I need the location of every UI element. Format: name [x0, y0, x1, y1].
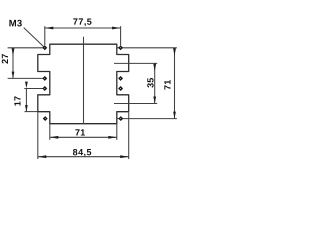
svg-text:17: 17 [12, 96, 22, 106]
arrow bottom of 35 [153, 97, 156, 104]
hole bottom-left [43, 117, 47, 121]
leader from M3 to hole [24, 28, 45, 48]
extension line row hole8 going right [117, 118, 177, 120]
svg-text:71: 71 [163, 80, 173, 90]
svg-text:84,5: 84,5 [73, 147, 92, 157]
arrow bottom of 27 [12, 72, 15, 79]
svg-text:M3: M3 [9, 18, 23, 29]
extension line right flange down [128, 112, 130, 159]
hole left middle upper [43, 76, 47, 80]
arrow top of 35 [153, 64, 156, 72]
arrow left of 71 bottom [50, 136, 59, 139]
extension line left flange down [37, 112, 39, 159]
extension line row hole1 going left [8, 47, 43, 49]
dimension 17 line [25, 88, 27, 111]
arrow top of 71 right [173, 48, 176, 56]
arrow top of 27 [12, 48, 15, 56]
extension line row hole5 going right [117, 47, 177, 49]
dimension 84,5 line [38, 156, 129, 158]
extension line slot bottom right [114, 103, 157, 105]
arrow right of 71 bottom [108, 136, 117, 139]
hole right middle lower [119, 87, 123, 91]
center line [83, 37, 85, 124]
extension line row hole2 going left [8, 77, 43, 79]
svg-text:77,5: 77,5 [73, 17, 92, 27]
hole bottom-right [119, 117, 123, 121]
dimension 77,5 line [45, 27, 121, 29]
dimension 35 line [154, 63, 156, 103]
extension line vertical to hole top-right [120, 26, 122, 45]
arrow right of 84,5 [120, 155, 129, 158]
arrow left of 77,5 [45, 27, 54, 30]
hole left middle lower [43, 87, 47, 91]
arrow left of 84,5 [38, 155, 47, 158]
dimension 71 right line [174, 48, 176, 119]
extension line row hole3 going left [24, 88, 43, 90]
extension line bottom-right notch down [116, 124, 118, 140]
arrow bottom of 17 [25, 82, 28, 89]
dimension 71 bottom line [50, 136, 117, 138]
extension line bottom-left notch down [49, 124, 51, 140]
svg-text:35: 35 [145, 77, 155, 87]
body outline [38, 44, 129, 124]
step extension line left [25, 111, 38, 113]
hole top-right [119, 46, 123, 50]
arrow right of 77,5 [112, 27, 121, 30]
dimension 27 line [12, 48, 14, 79]
extension line slot top right [114, 62, 157, 64]
svg-text:71: 71 [75, 127, 85, 137]
arrow bottom of 71 right [173, 112, 176, 119]
extension line vertical to hole M3 top-left [44, 26, 46, 45]
arrow bottom of 17 at step [25, 105, 28, 111]
hole right middle upper [119, 76, 123, 80]
hole M3 top-left [43, 46, 47, 50]
svg-text:27: 27 [0, 53, 10, 63]
